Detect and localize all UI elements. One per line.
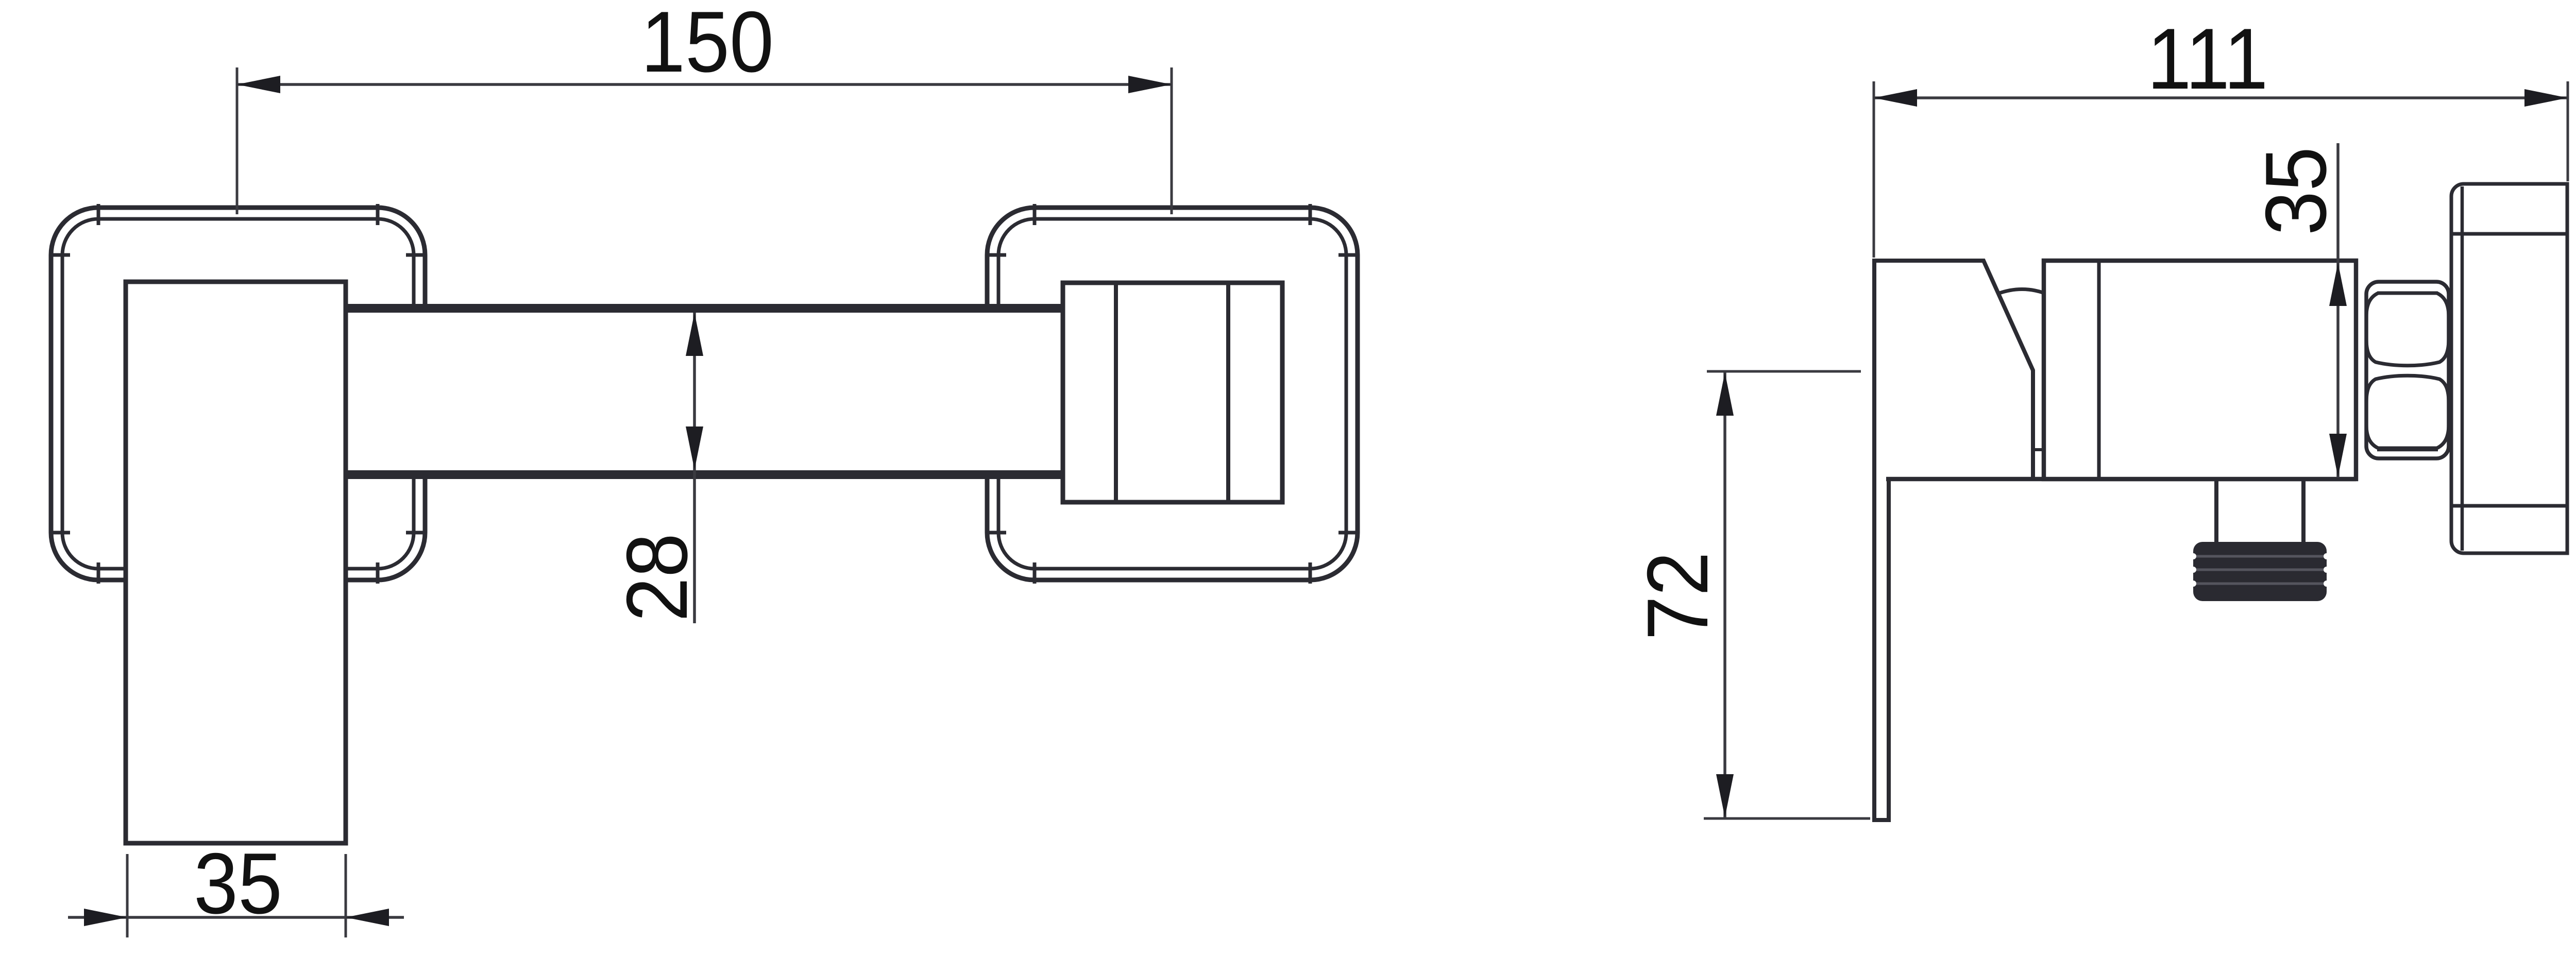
svg-text:35: 35 xyxy=(2248,147,2344,235)
svg-text:35: 35 xyxy=(194,835,282,932)
right flange arc ticks xyxy=(985,204,1360,584)
dimension 150 extension line right xyxy=(1171,67,1173,214)
dimension 72 bottom arrow xyxy=(1716,774,1734,817)
svg-text:111: 111 xyxy=(2147,11,2268,107)
cartridge inner line 1 xyxy=(1114,283,1118,502)
left flange outer contour xyxy=(51,208,425,580)
lever hub notch tick xyxy=(2033,448,2044,451)
right flange outer contour xyxy=(987,208,1358,580)
dimension 72 extension top xyxy=(1707,370,1861,373)
bracket inner edge line xyxy=(2461,186,2464,551)
cartridge inner line 2 xyxy=(1226,283,1230,502)
hex nut top chamfer line xyxy=(2377,292,2438,295)
dimension 150 line xyxy=(237,83,1172,86)
dimension 35 side bottom arrow xyxy=(2329,434,2347,477)
right flange inner contour xyxy=(998,219,1346,569)
svg-text:150: 150 xyxy=(641,0,774,90)
handle body (top view) xyxy=(126,282,346,843)
left flange inner contour xyxy=(62,219,414,569)
wall bracket outer xyxy=(2451,184,2567,553)
pipe bottom wall xyxy=(346,470,1063,479)
dimension 35 extension line left xyxy=(126,854,129,937)
bracket top groove xyxy=(2451,232,2567,236)
bottom outlet stub xyxy=(2214,479,2218,543)
dimension 35 (side) line xyxy=(2336,143,2340,477)
dimension 111 extension right xyxy=(2567,81,2569,181)
dimension 72 line xyxy=(1723,371,1726,818)
connecting pipe (white fill masks flange edges) xyxy=(346,304,1063,479)
dimension 28 top arrow xyxy=(686,313,703,356)
svg-text:28: 28 xyxy=(609,533,705,622)
hex nut lower facet xyxy=(2366,375,2449,448)
left flange arc ticks xyxy=(49,204,427,584)
dimension 111 left arrow xyxy=(1874,89,1917,107)
bottom edge continuous xyxy=(1886,477,2356,482)
dimension 111 line xyxy=(1874,96,2568,99)
handle lever side profile xyxy=(1874,261,2033,820)
bracket bottom groove xyxy=(2451,504,2567,508)
pipe top wall xyxy=(346,304,1063,313)
dimension 35 side top arrow xyxy=(2329,263,2347,306)
dimension 150 left arrow xyxy=(237,76,280,93)
cartridge housing in right flange xyxy=(1063,283,1282,502)
dimension 35 left arrow xyxy=(84,909,127,926)
dimension 150 right arrow xyxy=(1128,76,1172,93)
dimension 111 right arrow xyxy=(2524,89,2568,107)
dimension 35 right arrow xyxy=(346,909,389,926)
threaded outlet xyxy=(2190,542,2330,601)
mixer body (side) xyxy=(2044,261,2356,479)
dimension 35 line xyxy=(68,916,404,919)
dimension 72 top arrow xyxy=(1716,372,1734,416)
lever underside arc xyxy=(1998,289,2043,294)
dimension 28 line xyxy=(693,313,696,623)
body inner line xyxy=(2097,261,2101,479)
dimension 28 bottom arrow xyxy=(686,426,703,470)
svg-text:72: 72 xyxy=(1630,552,1726,640)
hex nut bottom chamfer line xyxy=(2377,448,2438,452)
hex nut upper facet xyxy=(2366,293,2449,366)
hex nut outer xyxy=(2366,282,2449,458)
dimension 150 extension line left xyxy=(236,67,239,214)
dimension 35 extension line right xyxy=(345,854,347,937)
dimension 72 extension bottom xyxy=(1704,817,1870,820)
dimension 111 extension left xyxy=(1873,81,1875,258)
